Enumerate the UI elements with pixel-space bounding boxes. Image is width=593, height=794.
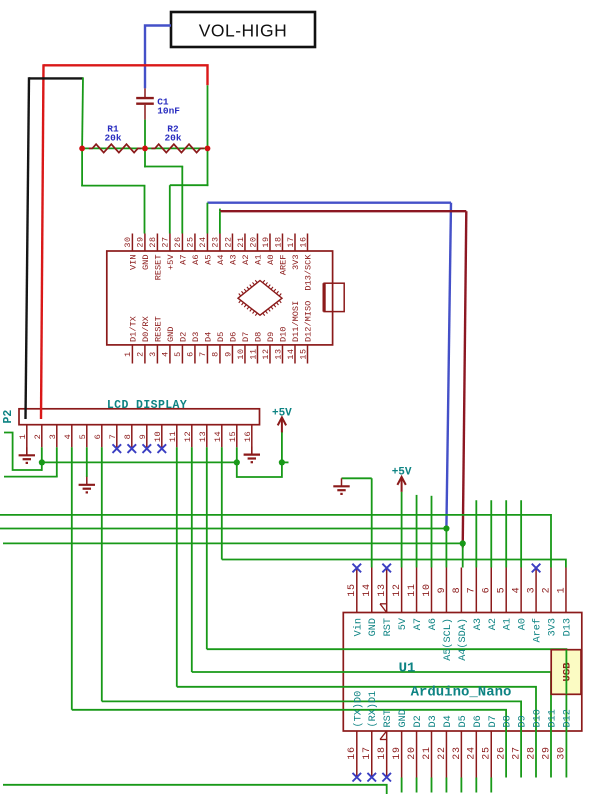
wire stub U1 pin 4 [520, 500, 522, 567]
wire P2 pin 15 stub [236, 447, 238, 462]
svg-text:18: 18 [377, 746, 388, 759]
clock mark U1 pin 13 [380, 604, 387, 613]
wire stub U1 pin 11 [416, 495, 418, 568]
wire blue A5 bus [207, 203, 451, 529]
svg-text:A2: A2 [241, 254, 251, 264]
svg-text:3V3: 3V3 [291, 255, 301, 270]
svg-text:6: 6 [93, 434, 103, 440]
svg-text:VOL-HIGH: VOL-HIGH [199, 21, 288, 41]
svg-text:A6: A6 [428, 618, 439, 630]
svg-text:3V3: 3V3 [548, 618, 559, 636]
svg-text:8: 8 [211, 351, 221, 357]
svg-text:8: 8 [123, 434, 133, 440]
junction dot U1 pin 8 SDA [460, 540, 466, 546]
svg-text:A5: A5 [204, 255, 214, 265]
svg-text:16: 16 [243, 431, 253, 442]
wire net B to U1 pin 9 [0, 529, 446, 568]
no-connect x P2 pins 7-10 [113, 444, 167, 453]
svg-text:2: 2 [136, 351, 146, 357]
svg-text:24: 24 [467, 746, 478, 759]
svg-text:D5: D5 [458, 715, 469, 727]
svg-text:12: 12 [392, 583, 403, 596]
svg-text:24: 24 [198, 236, 208, 247]
microcontroller chip drawing [238, 280, 282, 315]
reference U1 [399, 661, 416, 677]
svg-text:19: 19 [392, 746, 403, 759]
svg-text:1: 1 [18, 434, 28, 440]
wire +5V rail at P2 [42, 461, 237, 463]
wire +5V to U1 pin 12 [401, 492, 403, 568]
microcontroller usb connector drawing [324, 283, 344, 311]
svg-text:4: 4 [512, 587, 523, 594]
svg-text:28: 28 [148, 236, 158, 247]
junction dot P2 pin 15 [234, 459, 240, 465]
svg-text:D9: D9 [266, 332, 276, 342]
value Arduino_Nano [411, 685, 512, 701]
svg-text:9: 9 [223, 351, 233, 357]
Arduino Nano U1 pin numbers [347, 583, 567, 759]
wire stub U1 pin 7 [475, 500, 477, 567]
svg-text:A0: A0 [518, 618, 529, 630]
clock mark U1 pin 18 [380, 731, 387, 739]
svg-text:D6: D6 [229, 332, 239, 342]
junction dot R2 right [205, 146, 211, 152]
svg-text:15: 15 [298, 348, 308, 359]
svg-text:Aref: Aref [532, 618, 544, 642]
wire P2 pin 6 to U1 pin 27 D9 [102, 447, 521, 777]
svg-text:12: 12 [183, 431, 193, 442]
svg-text:6: 6 [186, 351, 196, 357]
svg-text:A7: A7 [179, 255, 189, 265]
ground at P2 pin 5 [79, 477, 95, 493]
wire black down to LCD pin 1 [26, 77, 30, 419]
svg-text:13: 13 [377, 583, 388, 596]
svg-text:26: 26 [173, 236, 183, 247]
svg-text:A4(SDA): A4(SDA) [457, 618, 469, 661]
junction dot P2 pin 2 [39, 459, 45, 465]
svg-text:(RX)D1: (RX)D1 [367, 691, 379, 728]
svg-text:1: 1 [123, 351, 133, 357]
svg-text:A3: A3 [229, 255, 239, 265]
svg-text:D2: D2 [179, 332, 189, 342]
svg-text:VIN: VIN [129, 255, 139, 270]
wire green pin 23 stub [219, 211, 221, 233]
svg-text:6: 6 [482, 587, 493, 594]
svg-text:13: 13 [198, 431, 208, 442]
power +5V at P2 [272, 408, 292, 433]
svg-text:7: 7 [108, 434, 118, 440]
svg-text:GND: GND [368, 618, 379, 636]
svg-text:7: 7 [467, 587, 478, 594]
svg-text:D6: D6 [473, 715, 484, 727]
svg-text:30: 30 [123, 236, 133, 247]
svg-text:A1: A1 [254, 255, 264, 265]
svg-text:+5V: +5V [392, 467, 412, 479]
no-connect x U1 bottom pins [353, 773, 391, 782]
capacitor C1 [136, 88, 180, 119]
svg-text:14: 14 [362, 583, 373, 596]
ground at P2 pin 1 [19, 447, 35, 463]
wire red down to LCD pin 2 [41, 64, 44, 419]
wire net A to U1 pin 2 [0, 515, 551, 568]
svg-text:D10: D10 [279, 327, 289, 342]
wire stub U1 pin 10 [431, 496, 433, 568]
svg-text:10: 10 [422, 583, 433, 596]
svg-text:Arduino_Nano: Arduino_Nano [411, 685, 512, 701]
svg-text:27: 27 [512, 746, 523, 759]
svg-text:11: 11 [168, 431, 178, 442]
svg-text:3: 3 [148, 351, 158, 357]
Arduino Nano U1 pin names [352, 617, 573, 727]
svg-text:30: 30 [556, 746, 567, 759]
svg-text:15: 15 [228, 431, 238, 442]
svg-text:18: 18 [273, 236, 283, 247]
wire rail to +5V symbol [237, 432, 289, 478]
svg-text:21: 21 [422, 746, 433, 759]
svg-text:22: 22 [223, 236, 233, 247]
svg-text:20: 20 [248, 236, 258, 247]
svg-text:26: 26 [497, 746, 508, 759]
svg-text:15: 15 [347, 583, 358, 596]
junction dot divider mid [142, 146, 148, 152]
wire dark red A4 bus [220, 209, 466, 548]
wire blue VOL-HIGH to C1 [145, 26, 171, 89]
svg-text:USB: USB [562, 662, 574, 682]
svg-text:D3: D3 [428, 715, 439, 727]
svg-text:D7: D7 [488, 715, 499, 727]
svg-text:13: 13 [273, 348, 283, 359]
svg-text:27: 27 [161, 236, 171, 247]
Arduino Nano USB box [551, 650, 581, 695]
svg-text:D12/MISO: D12/MISO [304, 301, 314, 342]
ground near U1 [333, 478, 349, 494]
svg-text:4: 4 [63, 434, 73, 440]
svg-text:29: 29 [136, 236, 146, 247]
svg-text:D4: D4 [204, 332, 214, 342]
wire P2 pin 13 to U1 pin 30 D12 [207, 447, 567, 777]
svg-text:7: 7 [198, 351, 208, 357]
wire stub U1 pin 6 [490, 500, 492, 567]
svg-text:D9: D9 [518, 715, 529, 727]
resistor R1 [89, 124, 142, 153]
svg-text:5: 5 [78, 434, 88, 440]
wire P2 pin 2 net [4, 433, 42, 471]
svg-text:D3: D3 [191, 332, 201, 342]
connector P2 pin numbers [18, 431, 253, 442]
svg-text:+5V: +5V [166, 254, 176, 270]
wire P2 pin 3 to left [4, 447, 58, 476]
svg-text:17: 17 [362, 746, 373, 759]
svg-text:9: 9 [437, 587, 448, 594]
svg-text:D13/SCK: D13/SCK [304, 254, 314, 291]
svg-text:9: 9 [138, 434, 148, 440]
label LCD DISPLAY [107, 399, 187, 412]
svg-text:19: 19 [261, 236, 271, 247]
svg-text:A6: A6 [191, 255, 201, 265]
junction dot U1 pin 9 SCL [443, 525, 449, 531]
svg-text:D4: D4 [443, 715, 454, 727]
svg-text:1: 1 [556, 587, 567, 594]
svg-text:5: 5 [497, 587, 508, 594]
microcontroller module pin names [129, 254, 314, 342]
svg-text:20k: 20k [104, 133, 121, 144]
resistor R2 [151, 124, 204, 153]
svg-text:D5: D5 [216, 332, 226, 342]
wire green pin 24 stub [206, 203, 208, 234]
microcontroller module pin stubs [132, 234, 307, 364]
svg-text:25: 25 [186, 236, 196, 247]
svg-text:U1: U1 [399, 661, 416, 677]
junction dot +5V riser [279, 459, 285, 465]
wire P2 pin 12 to U1 pin 29 D11 [192, 447, 551, 777]
svg-text:A2: A2 [488, 618, 499, 630]
svg-text:22: 22 [437, 746, 448, 759]
svg-text:A0: A0 [266, 255, 276, 265]
svg-text:5V: 5V [398, 617, 409, 630]
wire R1 left to GND pin 29 [81, 77, 145, 233]
svg-text:D11/MOSI: D11/MOSI [291, 301, 301, 342]
no-connect x U1 top pins [353, 564, 541, 573]
svg-text:8: 8 [452, 587, 463, 594]
svg-text:Vin: Vin [352, 618, 364, 636]
svg-text:RST: RST [383, 709, 394, 727]
hierarchical label box VOL-HIGH [171, 12, 315, 47]
microcontroller module pin numbers [123, 236, 308, 359]
svg-text:5: 5 [173, 351, 183, 357]
wire P2 pin 5 to ground [86, 447, 88, 477]
svg-text:29: 29 [541, 746, 552, 759]
svg-text:25: 25 [482, 746, 493, 759]
svg-text:16: 16 [298, 236, 308, 247]
svg-text:D7: D7 [241, 332, 251, 342]
ground at P2 pin 16 [244, 447, 260, 463]
svg-text:4: 4 [161, 351, 171, 357]
svg-text:10nF: 10nF [157, 105, 180, 116]
svg-text:23: 23 [452, 746, 463, 759]
svg-text:D2: D2 [413, 715, 424, 727]
wire P2 pin 14 to U1 pin 1 D13 [222, 447, 566, 567]
svg-text:14: 14 [213, 431, 223, 442]
wire black GND top [29, 77, 83, 79]
svg-text:2: 2 [33, 434, 43, 440]
svg-text:D13: D13 [562, 618, 573, 636]
svg-text:2: 2 [541, 587, 552, 594]
svg-text:A4: A4 [216, 255, 226, 265]
svg-text:20: 20 [407, 746, 418, 759]
svg-text:GND: GND [398, 709, 409, 727]
connector P2 body [19, 409, 260, 425]
svg-text:16: 16 [347, 746, 358, 759]
svg-text:11: 11 [248, 348, 258, 359]
wire ground link to U1 pin 14 [342, 478, 372, 567]
wire net C to U1 pin 8 [3, 543, 463, 567]
svg-text:AREF: AREF [279, 255, 289, 276]
wire R2 right to +5V pin 27 [170, 85, 209, 233]
Arduino Nano U1 body [343, 613, 582, 732]
svg-text:10: 10 [236, 348, 246, 359]
wire stub U1 pin 5 [505, 500, 507, 567]
wire divider mid to A7 pin 26 [144, 120, 183, 234]
svg-text:17: 17 [286, 236, 296, 247]
svg-text:10: 10 [153, 431, 163, 442]
svg-text:14: 14 [286, 348, 296, 359]
svg-text:3: 3 [48, 434, 58, 440]
svg-text:D12: D12 [562, 709, 573, 727]
svg-text:11: 11 [407, 583, 418, 596]
svg-text:D10: D10 [533, 709, 544, 727]
svg-text:D11: D11 [548, 709, 559, 727]
svg-text:GND: GND [166, 327, 176, 342]
svg-text:LCD DISPLAY: LCD DISPLAY [107, 399, 187, 412]
svg-text:RST: RST [383, 618, 394, 636]
wire P2 pin 11 to U1 pin 28 D10 [177, 447, 536, 777]
svg-text:A3: A3 [473, 618, 484, 630]
svg-text:+5V: +5V [272, 408, 292, 420]
svg-text:23: 23 [211, 236, 221, 247]
wire green row under R1 R2 [82, 147, 207, 149]
svg-text:20k: 20k [164, 133, 181, 144]
svg-text:RESET: RESET [154, 255, 164, 281]
connector P2 pin stubs [27, 425, 252, 456]
svg-text:D8: D8 [254, 332, 264, 342]
svg-text:D1/TX: D1/TX [129, 316, 139, 342]
svg-text:A5(SCL): A5(SCL) [442, 618, 454, 661]
svg-text:A1: A1 [503, 618, 514, 630]
Arduino Nano U1 pin stubs [357, 568, 566, 778]
microcontroller module A1 body [107, 251, 333, 345]
svg-text:GND: GND [141, 255, 151, 270]
wire red +5V top rail [44, 65, 208, 85]
svg-text:RESET: RESET [154, 316, 164, 342]
svg-text:(TX)D0: (TX)D0 [352, 691, 364, 728]
svg-text:12: 12 [261, 348, 271, 359]
svg-text:A7: A7 [413, 618, 424, 630]
svg-text:21: 21 [236, 236, 246, 247]
wire bottom rail [3, 785, 387, 794]
reference P2 [2, 410, 15, 424]
svg-text:3: 3 [526, 587, 537, 594]
wire U1 bottom pins down [402, 778, 492, 793]
svg-text:P2: P2 [2, 410, 15, 424]
svg-text:28: 28 [526, 746, 537, 759]
svg-text:D8: D8 [503, 715, 514, 727]
wire P2 pin 4 to U1 pin 26 D8 [72, 447, 506, 777]
junction dot R1 left [79, 146, 85, 152]
svg-text:D0/RX: D0/RX [141, 316, 151, 342]
power +5V at U1 pin 12 [392, 467, 412, 492]
